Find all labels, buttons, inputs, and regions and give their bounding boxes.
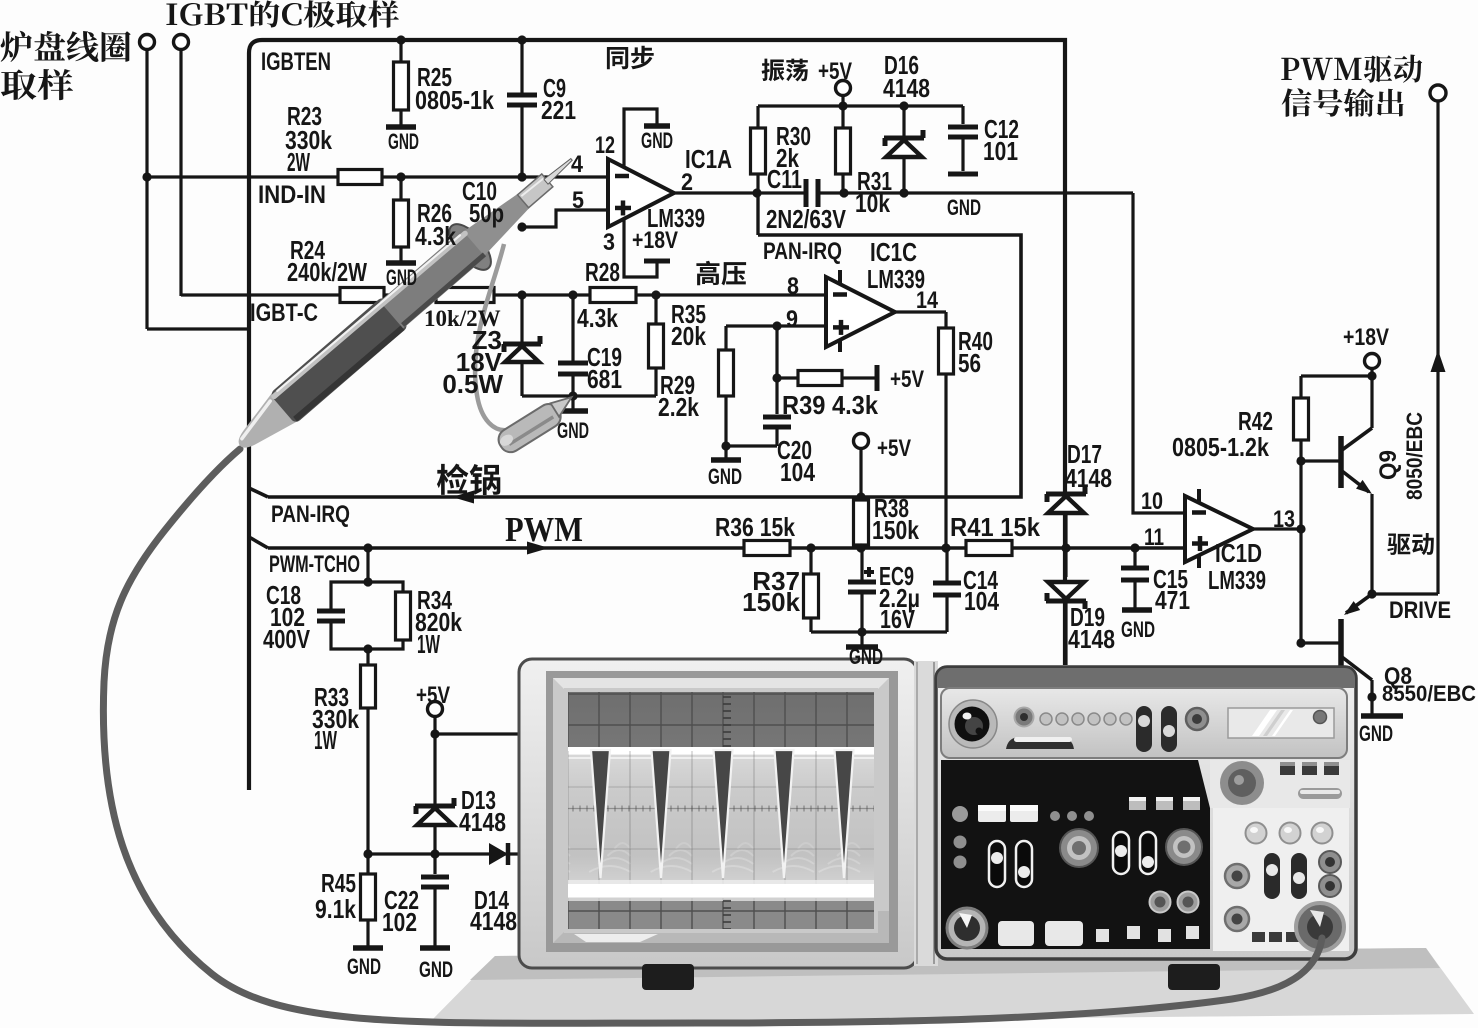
svg-text:GND: GND [419,957,453,982]
svg-text:GND: GND [388,129,419,154]
svg-text:150k: 150k [742,587,800,617]
svg-text:GND: GND [1359,721,1393,746]
svg-text:+18V: +18V [632,227,678,254]
svg-text:9: 9 [786,306,798,333]
svg-text:GND: GND [849,644,883,669]
svg-text:IC1D: IC1D [1215,538,1262,568]
svg-text:101: 101 [983,136,1018,166]
svg-text:R39 4.3k: R39 4.3k [782,390,878,420]
svg-text:104: 104 [964,586,999,616]
svg-text:20k: 20k [671,321,706,351]
svg-text:8050/EBC: 8050/EBC [1402,412,1427,500]
svg-text:+18V: +18V [1343,324,1389,351]
svg-text:C11: C11 [767,164,802,194]
svg-text:400V: 400V [263,624,310,654]
svg-text:+5V: +5V [877,435,911,462]
svg-text:4.3k: 4.3k [415,221,456,251]
svg-text:471: 471 [1155,585,1190,615]
svg-text:9.1k: 9.1k [315,894,356,924]
svg-text:4148: 4148 [470,906,517,936]
svg-text:56: 56 [958,348,981,378]
svg-text:4148: 4148 [883,73,930,103]
svg-text:0805-1.2k: 0805-1.2k [1172,432,1269,462]
svg-text:240k/2W: 240k/2W [287,257,367,287]
svg-text:+5V: +5V [818,58,852,85]
svg-text:150k: 150k [872,515,919,545]
svg-text:GND: GND [557,418,589,443]
svg-text:50p: 50p [469,198,504,228]
svg-text:PAN-IRQ: PAN-IRQ [763,238,842,265]
svg-text:1W: 1W [417,629,440,659]
svg-text:681: 681 [587,364,622,394]
svg-text:IGBTEN: IGBTEN [261,48,331,76]
svg-text:GND: GND [947,195,981,220]
svg-text:R28: R28 [585,257,620,287]
svg-text:PWM: PWM [505,510,583,549]
svg-text:R36 15k: R36 15k [715,512,795,542]
svg-text:12: 12 [595,132,615,159]
svg-text:2.2k: 2.2k [658,392,699,422]
svg-text:DRIVE: DRIVE [1389,597,1451,624]
svg-text:5: 5 [572,187,584,214]
svg-text:102: 102 [382,907,417,937]
svg-text:0.5W: 0.5W [442,369,503,399]
svg-text:PWM-TCHO: PWM-TCHO [269,551,360,578]
svg-text:13: 13 [1273,506,1295,533]
svg-text:1W: 1W [314,725,337,755]
svg-text:4.3k: 4.3k [577,303,618,333]
svg-text:2W: 2W [287,147,310,177]
svg-text:IC1C: IC1C [870,237,917,267]
svg-text:GND: GND [641,128,673,153]
svg-text:4148: 4148 [1065,463,1112,493]
svg-text:IGBT-C: IGBT-C [250,299,318,327]
svg-text:16V: 16V [880,604,915,634]
svg-text:GND: GND [386,265,417,290]
svg-text:8550/EBC: 8550/EBC [1382,681,1476,706]
svg-text:PAN-IRQ: PAN-IRQ [271,501,350,528]
svg-text:GND: GND [347,954,381,979]
svg-text:14: 14 [916,287,939,314]
svg-text:R41 15k: R41 15k [950,512,1040,542]
svg-text:GND: GND [708,464,742,489]
svg-text:LM339: LM339 [1208,565,1266,595]
svg-text:11: 11 [1144,524,1164,551]
svg-text:Q9: Q9 [1375,450,1402,480]
svg-text:4148: 4148 [1068,624,1115,654]
svg-text:10k: 10k [855,188,890,218]
svg-text:IC1A: IC1A [685,144,732,174]
svg-text:4148: 4148 [459,807,506,837]
svg-text:GND: GND [1121,617,1155,642]
svg-text:8: 8 [787,273,799,300]
svg-text:10: 10 [1141,488,1163,515]
svg-text:+5V: +5V [416,682,450,709]
svg-text:+5V: +5V [890,366,924,393]
svg-text:IND-IN: IND-IN [258,181,326,209]
svg-text:0805-1k: 0805-1k [415,85,494,115]
svg-text:221: 221 [541,95,576,125]
svg-text:3: 3 [603,229,615,256]
svg-text:104: 104 [780,457,815,487]
svg-text:4: 4 [571,151,584,178]
svg-text:2N2/63V: 2N2/63V [766,204,847,234]
